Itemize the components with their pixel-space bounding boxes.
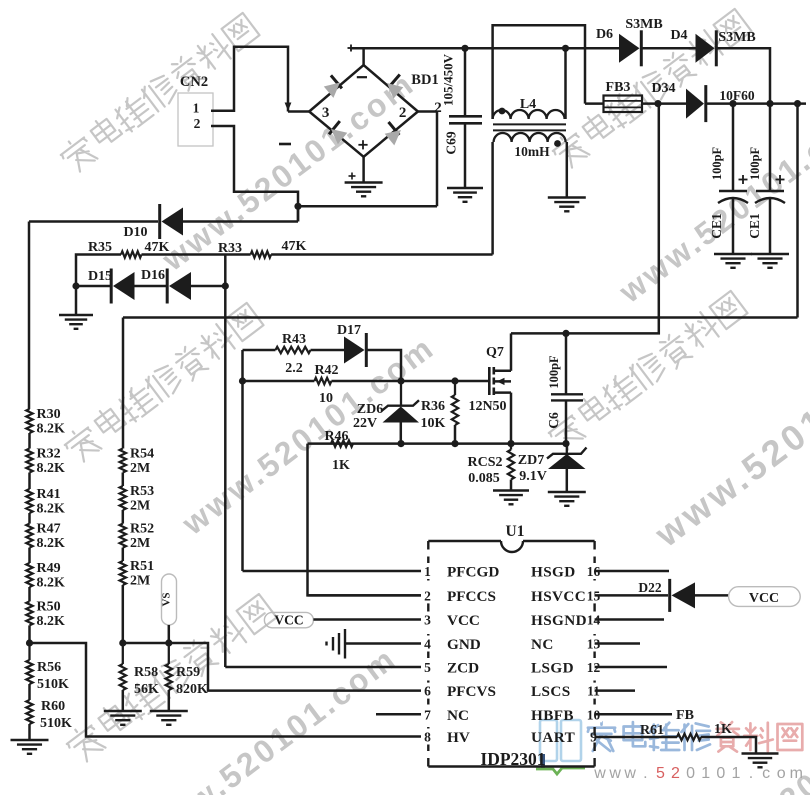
svg-text:VCC: VCC: [447, 612, 480, 629]
ground pin4 sideways: [327, 629, 346, 659]
label R61: [640, 723, 664, 738]
bridge diode top-left: [324, 75, 342, 98]
svg-text:IDP2301: IDP2301: [480, 749, 545, 769]
svg-text:R61: R61: [640, 723, 664, 738]
label C69: [444, 131, 459, 154]
zener ZD7: [547, 444, 587, 492]
resistor R56: [26, 643, 32, 700]
bridge pin 3 label: [322, 105, 330, 121]
svg-text:8.2K: 8.2K: [37, 614, 66, 629]
pin 12 number: [586, 659, 602, 675]
label 10K: [421, 416, 446, 431]
pin label HV: [447, 729, 470, 746]
arrow on bridge input wire: [285, 103, 292, 112]
ground R58: [104, 711, 142, 725]
wire pin10 HBFB stub: [595, 713, 672, 716]
svg-text:R51: R51: [130, 559, 154, 574]
svg-text:1: 1: [701, 765, 710, 782]
svg-text:RCS2: RCS2: [467, 455, 502, 470]
label CE1 left: [709, 213, 724, 239]
resistor R53: [120, 486, 126, 510]
resistor R58: [120, 643, 126, 711]
resistor R49: [26, 563, 32, 587]
svg-text:D16: D16: [141, 268, 165, 283]
bridge diode top-right: [387, 75, 403, 99]
node ZCD junction: [222, 282, 229, 289]
label R33: [218, 241, 242, 256]
label R46: [324, 429, 348, 444]
resistor R61: [677, 734, 701, 740]
label 8.2K of R49: [37, 576, 66, 591]
svg-text:m: m: [790, 765, 803, 782]
watermark site name: [588, 722, 615, 751]
svg-text:HSVCC: HSVCC: [531, 588, 586, 605]
wire pin4 GND: [345, 642, 421, 645]
wire CN2 pin1 to bridge: [211, 47, 288, 112]
label 47K of R33: [282, 239, 307, 254]
node gate-R36: [451, 377, 458, 384]
label 100pF left: [710, 146, 724, 180]
label R32: [37, 447, 61, 462]
label R30: [37, 407, 61, 422]
label D10: [123, 225, 147, 240]
svg-text:D34: D34: [651, 81, 675, 96]
ground R59: [150, 711, 188, 725]
node gate-ZD6: [397, 377, 404, 384]
pin label NC: [447, 707, 469, 724]
svg-text:R35: R35: [88, 240, 112, 255]
svg-text:R50: R50: [37, 599, 61, 614]
svg-text:R46: R46: [324, 429, 348, 444]
wire D6 to D4: [642, 47, 696, 50]
wire R42 row: [243, 380, 315, 383]
node C69 top: [461, 45, 468, 52]
label R49: [37, 561, 61, 576]
watermark logo book icon: [536, 720, 585, 774]
label 2.2: [285, 361, 303, 376]
svg-text:D15: D15: [88, 269, 112, 284]
bridge rectifier BD1 outline: [309, 65, 418, 157]
svg-text:22V: 22V: [353, 416, 377, 431]
wire left divider drop: [28, 222, 31, 410]
wire ground stem: [75, 286, 78, 315]
ground R60: [11, 740, 49, 754]
node drain-C6 junction: [562, 330, 569, 337]
wire pin3 VCC: [313, 618, 421, 621]
label 56K: [134, 682, 159, 697]
svg-text:.: .: [643, 765, 647, 782]
ground CE1b: [751, 254, 789, 268]
ground bridge: [345, 183, 383, 197]
svg-text:10: 10: [319, 391, 333, 406]
net label VS oval: [160, 574, 176, 625]
svg-text:4: 4: [424, 637, 431, 652]
label 10: [319, 391, 333, 406]
label D22: [638, 580, 661, 595]
node VS oval junction: [165, 639, 172, 646]
svg-text:HSGD: HSGD: [531, 564, 576, 581]
connector CN2 pin 1: [193, 101, 200, 116]
wire D4 down to row: [717, 48, 770, 103]
net label VCC oval pin15: [729, 587, 801, 607]
svg-text:FB: FB: [676, 708, 694, 723]
pin label ZCD: [447, 660, 479, 677]
wire R61 to ground: [701, 737, 756, 754]
node CN2-D10 junction: [294, 203, 301, 210]
pin label NC right: [531, 636, 554, 653]
pin 5 number: [421, 659, 434, 675]
wire R33 to L4: [271, 253, 493, 256]
svg-text:D10: D10: [123, 225, 147, 240]
diode D34: [686, 85, 706, 122]
wire pin5 ZCD: [225, 666, 421, 669]
wire D10 to junction: [183, 206, 298, 221]
label C6: [546, 412, 561, 429]
bridge diode bottom-right: [385, 122, 401, 145]
wire pin7 NC stub: [376, 713, 421, 716]
node L4 upper dot: [499, 108, 506, 115]
label 2M of R51: [130, 574, 150, 589]
wire L4 loop top: [493, 25, 585, 119]
ground RCS2: [493, 491, 529, 505]
svg-text:D22: D22: [638, 580, 661, 595]
wire bridge right output: [418, 112, 437, 207]
ground CE1a: [714, 254, 752, 268]
svg-text:www.520101.com: www.520101.com: [612, 97, 810, 310]
node CE1a top: [729, 100, 736, 107]
label 2M of R52: [130, 536, 150, 551]
node L4 lower dot: [554, 140, 561, 147]
capacitor CE1a 100pF: [718, 104, 748, 254]
capacitor C6: [551, 333, 583, 443]
wire C69 top: [464, 48, 467, 116]
svg-text:2M: 2M: [130, 461, 150, 476]
wire CN2 pin2 down: [211, 126, 298, 222]
connector CN2 box: [178, 93, 213, 146]
label 22V: [353, 416, 377, 431]
resistor R30: [26, 409, 32, 433]
svg-text:HBFB: HBFB: [531, 707, 574, 724]
label R60: [41, 699, 65, 714]
label R53: [130, 484, 154, 499]
node R42 row left: [239, 377, 246, 384]
zener ZD6: [382, 381, 420, 444]
svg-text:BD1: BD1: [411, 72, 438, 88]
ground D15 node: [59, 315, 93, 329]
node source: [507, 440, 514, 447]
label R43: [282, 332, 306, 347]
svg-text:2M: 2M: [130, 499, 150, 514]
node C6 bottom: [562, 440, 569, 447]
wire pin1 net vertical: [241, 350, 244, 571]
wire R35 to R33: [142, 253, 251, 256]
wire PFC bus left leg to divider: [122, 318, 125, 449]
pin 6 number: [421, 683, 434, 699]
svg-text:D6: D6: [596, 27, 613, 42]
wire pin13 stub: [595, 642, 640, 645]
svg-text:1: 1: [731, 765, 740, 782]
svg-text:R36: R36: [421, 399, 445, 414]
label S3MB second: [718, 30, 755, 45]
node R36 bottom: [451, 440, 458, 447]
wire pin1 PFCGD: [243, 570, 422, 573]
svg-text:C69: C69: [444, 131, 459, 154]
wire D34 anode drop: [566, 104, 659, 334]
svg-text:R56: R56: [37, 660, 61, 675]
wire node to D15: [76, 285, 112, 288]
svg-text:R33: R33: [218, 241, 242, 256]
wire L4 to FB3: [585, 102, 604, 105]
wire pin11 stub: [595, 689, 635, 692]
label 100pF right: [748, 146, 762, 180]
svg-text:2: 2: [424, 588, 431, 603]
resistor R32: [26, 449, 32, 473]
pin 10 number: [586, 706, 602, 722]
svg-text:R32: R32: [37, 447, 61, 462]
pin label HBFB right: [531, 707, 574, 724]
label 1K: [332, 458, 350, 473]
svg-text:GND: GND: [447, 636, 481, 653]
label 1K of R61: [714, 722, 732, 737]
svg-text:10mH: 10mH: [514, 144, 550, 159]
minus mark AC line: [279, 143, 291, 146]
label IDP2301: [480, 749, 545, 769]
pin 2 number: [421, 587, 434, 603]
ground ZD7: [548, 492, 586, 506]
wire 2M divider column: [122, 473, 125, 644]
svg-text:S3MB: S3MB: [625, 17, 662, 32]
wire bridge top to bus: [362, 48, 365, 65]
svg-text:c: c: [762, 765, 770, 782]
label FB3: [606, 80, 631, 95]
label Q7: [486, 345, 504, 360]
label 8.2K of R47: [37, 536, 66, 551]
svg-text:NC: NC: [447, 707, 469, 724]
wire pin14 stub: [595, 618, 664, 621]
svg-text:510K: 510K: [37, 677, 69, 692]
svg-text:8.2K: 8.2K: [37, 422, 66, 437]
label FB: [676, 708, 694, 723]
diode D15: [111, 269, 134, 304]
label S3MB first: [625, 17, 662, 32]
resistor R36: [452, 381, 458, 444]
plus mark bridge output: [348, 45, 355, 52]
svg-text:3: 3: [322, 105, 330, 121]
pin label PFCGD: [447, 564, 499, 581]
wire PFCVS row: [123, 643, 421, 691]
wire D34 to caps: [706, 102, 806, 105]
svg-text:10K: 10K: [421, 416, 446, 431]
svg-text:NC: NC: [531, 636, 554, 653]
pin label HSGD right: [531, 564, 576, 581]
svg-text:5: 5: [656, 765, 665, 782]
pin 4 number: [421, 636, 434, 652]
svg-text:HSGND: HSGND: [531, 612, 587, 629]
label 9.1V: [519, 469, 547, 484]
pin label LSGD right: [531, 660, 574, 677]
label 2M of R54: [130, 461, 150, 476]
wire R43 to D17: [311, 349, 345, 352]
pin 8 number: [421, 729, 434, 745]
label 8.2K of R30: [37, 422, 66, 437]
wire drain row: [511, 332, 566, 335]
svg-text:8: 8: [424, 730, 431, 745]
pin label HSVCC right: [531, 588, 586, 605]
node D15 left: [72, 282, 79, 289]
wire main rectified bus: [350, 47, 620, 50]
label D16: [141, 268, 165, 283]
wire L4 lower right to ground: [566, 142, 569, 198]
svg-text:ZD7: ZD7: [518, 453, 544, 468]
label 820K: [176, 682, 208, 697]
node PFCVS junction: [119, 639, 126, 646]
wire pin15 to D22: [595, 594, 668, 597]
svg-text:R30: R30: [37, 407, 61, 422]
svg-text:R47: R47: [37, 522, 61, 537]
diode D6: [619, 30, 641, 66]
wire ZCD vertical: [224, 255, 227, 668]
op-amp U1 IDP2301 body: [428, 541, 594, 767]
wire junction to bridge-2 leg: [298, 205, 437, 208]
svg-text:www.520101.com: www.520101.com: [137, 640, 404, 795]
svg-text:w: w: [608, 765, 621, 782]
diode D10: [160, 204, 183, 239]
svg-text:100pF: 100pF: [748, 146, 762, 180]
label R58: [134, 665, 158, 680]
resistor R52: [120, 524, 126, 548]
pin label PFCVS: [447, 683, 496, 700]
node L4 bus junction: [562, 45, 569, 52]
wire R42 to gate: [331, 380, 489, 383]
resistor R47: [26, 524, 32, 548]
wire pin12 stub: [595, 666, 667, 669]
label R35: [88, 240, 112, 255]
label BD1: [411, 72, 438, 88]
label 100pF of C6: [547, 355, 561, 389]
svg-text:w: w: [623, 765, 636, 782]
node ZD6 bottom: [397, 440, 404, 447]
svg-text:www.520101.com: www.520101.com: [646, 309, 810, 555]
label CN2: [180, 74, 208, 90]
svg-text:C6: C6: [546, 412, 561, 429]
pin label PFCCS: [447, 588, 496, 605]
wire pin2 PFCCS stub: [308, 594, 422, 597]
bridge diode bottom-left: [329, 121, 347, 144]
wire pin16 stub: [595, 570, 669, 573]
svg-text:ZD6: ZD6: [357, 402, 383, 417]
wire VS oval to node: [168, 625, 171, 643]
wire HV tap right: [30, 643, 422, 737]
label 12N50: [468, 399, 506, 414]
svg-text:R59: R59: [176, 665, 200, 680]
bridge minus mark: [357, 76, 367, 78]
svg-text:0: 0: [686, 765, 695, 782]
label R59: [176, 665, 200, 680]
wire R43 row left: [243, 349, 276, 352]
label 8.2K of R41: [37, 502, 66, 517]
svg-text:2: 2: [194, 116, 201, 131]
label ZD7: [518, 453, 544, 468]
svg-text:9.1V: 9.1V: [519, 469, 547, 484]
svg-text:VCC: VCC: [274, 613, 303, 628]
svg-text:7: 7: [424, 707, 431, 722]
svg-text:CE1: CE1: [747, 213, 762, 239]
svg-text:8.2K: 8.2K: [37, 536, 66, 551]
resistor R51: [120, 561, 126, 585]
label 0.085: [468, 471, 500, 486]
pin 13 number: [586, 636, 602, 652]
resistor R42: [314, 378, 331, 384]
svg-text:LSCS: LSCS: [531, 683, 571, 700]
label U1: [506, 523, 525, 540]
svg-text:VCC: VCC: [749, 591, 779, 606]
svg-text:R53: R53: [130, 484, 154, 499]
label 105/450V: [441, 53, 456, 106]
svg-text:0.085: 0.085: [468, 471, 500, 486]
svg-text:1K: 1K: [332, 458, 350, 473]
label ZD6: [357, 402, 383, 417]
node bus corner: [794, 100, 801, 107]
pin 14 number: [586, 612, 602, 628]
node HV divider tap: [26, 639, 33, 646]
resistor R59: [166, 643, 172, 711]
pin 11 number: [586, 683, 602, 699]
capacitor CE1b 100pF: [755, 104, 785, 254]
svg-text:R54: R54: [130, 447, 154, 462]
svg-text:FB3: FB3: [606, 80, 631, 95]
wire L4 upper to bus: [564, 48, 567, 119]
label R52: [130, 522, 154, 537]
svg-text:S3MB: S3MB: [718, 30, 755, 45]
svg-text:o: o: [777, 765, 786, 782]
label 10F60: [719, 88, 754, 103]
svg-text:D17: D17: [337, 323, 361, 338]
svg-text:R49: R49: [37, 561, 61, 576]
pin 16 number: [586, 563, 602, 579]
pin 7 number: [421, 706, 434, 722]
label 2M of R53: [130, 499, 150, 514]
resistor R50: [26, 601, 32, 625]
svg-text:10F60: 10F60: [719, 88, 754, 103]
svg-text:.: .: [749, 765, 753, 782]
node CE1b top: [766, 100, 773, 107]
wire D16 right: [191, 285, 225, 288]
resistor RCS2: [508, 444, 514, 491]
svg-text:0: 0: [716, 765, 725, 782]
resistor R35: [121, 251, 142, 257]
label 510K of R56: [37, 677, 69, 692]
svg-text:D4: D4: [670, 28, 687, 43]
wire PFCCS vertical: [308, 444, 422, 596]
resistor R33: [251, 251, 272, 257]
svg-text:PFCGD: PFCGD: [447, 564, 499, 581]
svg-text:510K: 510K: [40, 716, 72, 731]
svg-text:100pF: 100pF: [710, 146, 724, 180]
label 8.2K of R32: [37, 461, 66, 476]
wire D10 row: [29, 220, 158, 223]
capacitor C69: [449, 116, 482, 188]
svg-text:5: 5: [424, 660, 431, 675]
svg-text:47K: 47K: [145, 240, 170, 255]
svg-text:1: 1: [193, 101, 200, 116]
label D6: [596, 27, 613, 42]
svg-text:ZCD: ZCD: [447, 660, 479, 677]
label 8.2K of R50: [37, 614, 66, 629]
resistor R60: [26, 700, 32, 740]
wire bridge bottom: [362, 157, 365, 183]
svg-text:2M: 2M: [130, 536, 150, 551]
svg-text:R43: R43: [282, 332, 306, 347]
